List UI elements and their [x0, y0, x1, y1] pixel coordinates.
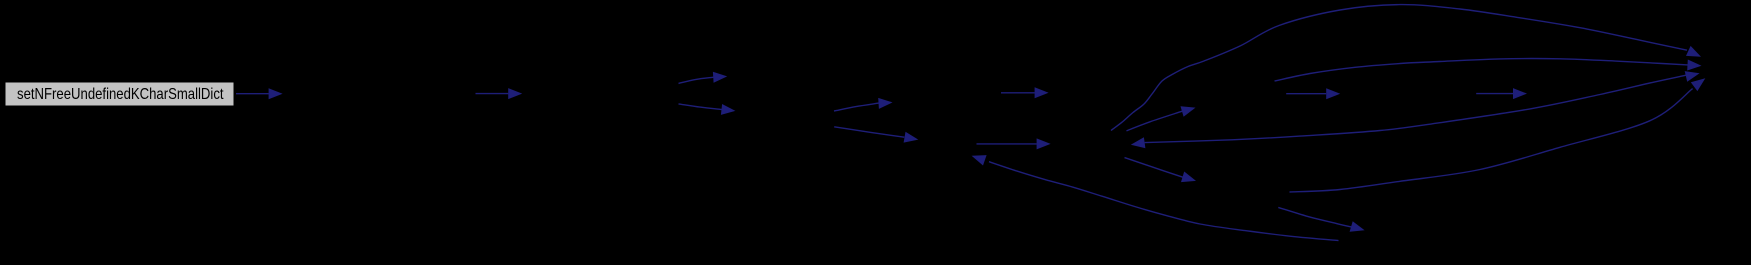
svg-text:setNFreeUndefinedKCharSmallDic: setNFreeUndefinedKCharSmallDict	[17, 86, 224, 103]
edge W->E3	[972, 155, 1339, 241]
edge F3->F4	[1476, 88, 1527, 99]
edge G->H2	[1125, 158, 1197, 183]
edge B->C	[476, 88, 523, 99]
edge E->E3	[834, 127, 918, 143]
edge H2->Z swoosh	[1290, 78, 1706, 192]
edge C->D	[679, 72, 728, 84]
edge G->H1	[1127, 106, 1196, 131]
edge G->Z top curve	[1111, 5, 1701, 131]
edge H2->W	[1278, 207, 1364, 231]
edge F2->F3	[1286, 88, 1340, 99]
edge E3->G	[977, 138, 1051, 149]
edge E->F	[834, 98, 893, 111]
edge F->F2	[1001, 87, 1049, 98]
node setNFreeUndefinedKCharSmallDict	[6, 83, 234, 106]
edge H1->Z	[1275, 59, 1702, 81]
edge G<->Z double line	[1131, 71, 1700, 148]
edge A->B	[236, 88, 283, 99]
edge C->E	[679, 104, 736, 115]
